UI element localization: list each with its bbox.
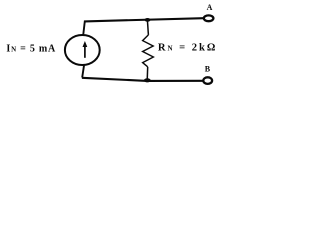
wire resistor bottom lead [146,67,149,81]
wire left lower [82,65,84,78]
arrow of current source [84,46,86,58]
current source IN [65,35,100,65]
wire left upper [83,21,85,36]
terminal A [204,15,214,21]
wire resistor top lead [147,20,148,35]
wire top [85,18,204,21]
svg-text:A: A [207,3,213,12]
terminal B [203,77,212,84]
junction node top [145,18,151,22]
wire bottom [82,78,203,81]
svg-text:RN = 2kΩ: RN = 2kΩ [158,42,216,53]
resistor RN zigzag [143,35,154,67]
junction node bottom [144,78,151,82]
svg-text:IN = 5 mA: IN = 5 mA [6,44,56,55]
svg-text:B: B [205,65,211,74]
